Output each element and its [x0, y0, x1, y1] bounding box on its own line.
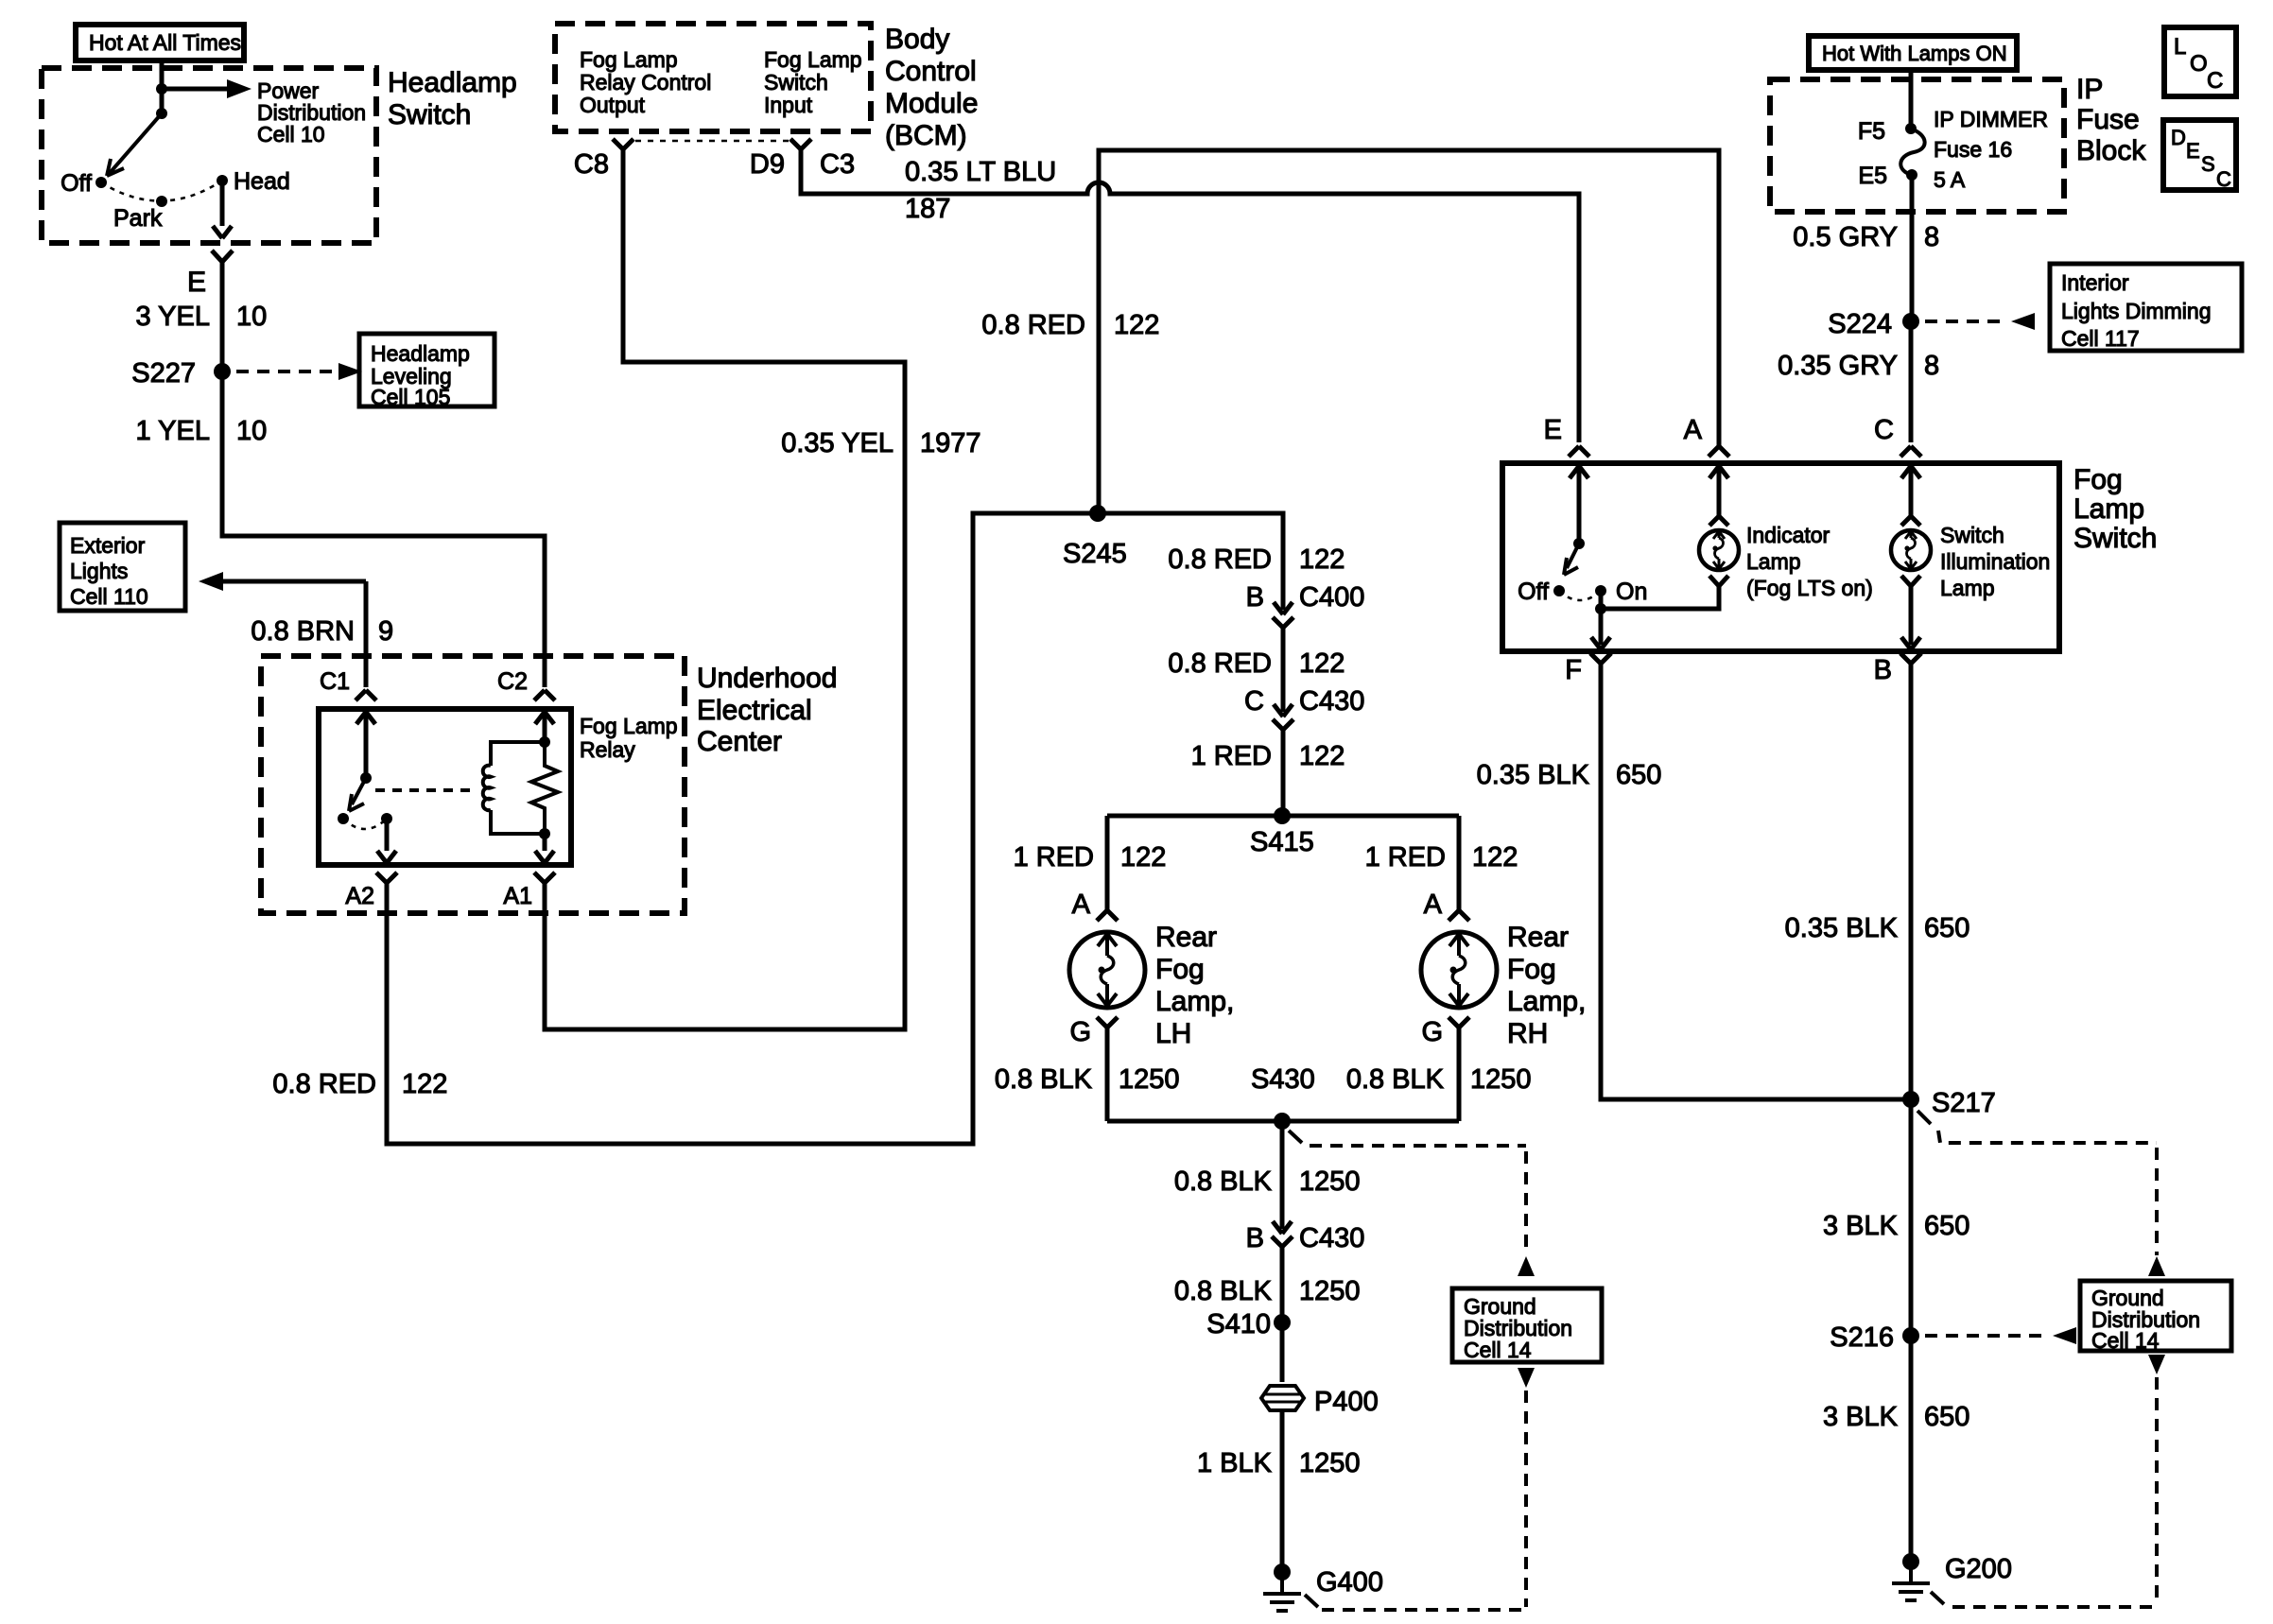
relay pin A2 internal arrow: [377, 819, 396, 863]
svg-text:B: B: [1874, 655, 1892, 685]
svg-text:1250: 1250: [1299, 1448, 1361, 1478]
svg-text:S227: S227: [131, 358, 196, 389]
svg-text:F: F: [1565, 655, 1582, 685]
svg-text:1250: 1250: [1470, 1064, 1532, 1095]
svg-text:8: 8: [1924, 351, 1939, 381]
svg-text:A: A: [1072, 890, 1091, 920]
svg-text:10: 10: [236, 302, 267, 332]
svg-text:S410: S410: [1206, 1309, 1271, 1339]
svg-text:F5: F5: [1858, 118, 1885, 145]
svg-text:E: E: [187, 267, 206, 298]
switch position dashed arc: [101, 181, 222, 201]
BCM dashed box: [555, 24, 871, 131]
svg-text:D9: D9: [750, 149, 785, 180]
svg-text:O: O: [2190, 51, 2208, 77]
svg-text:Output: Output: [580, 93, 646, 117]
svg-text:122: 122: [402, 1069, 447, 1099]
svg-text:122: 122: [1114, 310, 1159, 340]
wire P400 to G400: [1280, 1410, 1285, 1569]
svg-text:10: 10: [236, 416, 267, 446]
svg-text:G: G: [1421, 1017, 1443, 1047]
svg-text:S216: S216: [1830, 1322, 1894, 1353]
svg-text:Cell 14: Cell 14: [1464, 1338, 1532, 1362]
svg-text:650: 650: [1616, 760, 1661, 790]
relay switch pivot: [360, 772, 372, 784]
splice S227: [214, 363, 231, 380]
svg-text:Exterior: Exterior: [70, 533, 146, 558]
splice pass-through P400: [1261, 1386, 1304, 1410]
connector D9 / C3: [790, 139, 811, 149]
connector pin F (fog switch): [1590, 653, 1611, 664]
rear fog lamp LH: [1069, 932, 1145, 1008]
wire S430 down: [1280, 1121, 1285, 1229]
svg-text:C: C: [2216, 167, 2231, 191]
wire S415 rail: [1107, 814, 1459, 819]
svg-text:Fog Lamp: Fog Lamp: [580, 47, 678, 72]
svg-text:0.35 BLK: 0.35 BLK: [1785, 913, 1899, 943]
splice S415: [1274, 807, 1291, 824]
svg-text:0.8 BLK: 0.8 BLK: [1174, 1276, 1273, 1306]
wire S217 to S216: [1909, 1099, 1914, 1336]
svg-text:122: 122: [1299, 741, 1345, 771]
dashed leader S430 to Ground Distribution: [1289, 1131, 1302, 1143]
svg-text:Underhood: Underhood: [697, 663, 837, 694]
connector pin B (fog switch): [1900, 653, 1921, 664]
svg-text:5 A: 5 A: [1934, 167, 1966, 192]
svg-text:A1: A1: [503, 883, 532, 909]
svg-text:1250: 1250: [1299, 1276, 1361, 1306]
wire C8 (0.35 YEL 1977) to A1: [545, 149, 905, 1029]
wire S224 to fog switch C: [1909, 321, 1914, 442]
wire E to S227 to C2: [222, 262, 545, 687]
switch illumination lamp internal wiring: [1901, 466, 1920, 516]
svg-text:122: 122: [1472, 842, 1518, 872]
svg-text:Relay: Relay: [580, 737, 635, 762]
svg-text:0.35 YEL: 0.35 YEL: [781, 428, 894, 458]
node feed junction: [156, 83, 167, 95]
svg-text:Rear: Rear: [1155, 922, 1217, 953]
svg-text:Head: Head: [234, 168, 290, 195]
svg-text:Body: Body: [885, 24, 949, 55]
node E5: [1906, 169, 1917, 181]
wire C430 to S415: [1281, 730, 1286, 816]
svg-text:Fuse 16: Fuse 16: [1934, 137, 2012, 162]
svg-text:3 BLK: 3 BLK: [1823, 1402, 1899, 1432]
svg-text:C8: C8: [574, 149, 609, 180]
svg-text:0.8 BLK: 0.8 BLK: [1174, 1166, 1273, 1197]
svg-text:S217: S217: [1932, 1088, 1996, 1118]
svg-text:0.8 RED: 0.8 RED: [1168, 544, 1272, 575]
relay pin C1 internal arrow: [356, 712, 375, 778]
connector link dotted: [635, 140, 790, 143]
svg-text:S415: S415: [1250, 827, 1314, 857]
svg-text:A: A: [1424, 890, 1443, 920]
relay coil: [491, 742, 545, 766]
svg-text:3 BLK: 3 BLK: [1823, 1211, 1899, 1241]
svg-text:Center: Center: [697, 726, 782, 757]
svg-text:IP DIMMER: IP DIMMER: [1934, 107, 2048, 131]
fog switch dashed arc: [1559, 591, 1601, 600]
svg-text:(BCM): (BCM): [885, 120, 967, 151]
svg-text:Hot At All Times: Hot At All Times: [89, 30, 241, 55]
node Head: [217, 175, 228, 186]
svg-text:B: B: [1246, 582, 1264, 613]
svg-text:Block: Block: [2076, 135, 2146, 166]
dashed leader Ground Distribution to G200: [2148, 1355, 2165, 1374]
svg-text:0.8 BLK: 0.8 BLK: [1346, 1064, 1445, 1095]
svg-text:Lamp: Lamp: [2073, 493, 2144, 525]
svg-text:0.35 GRY: 0.35 GRY: [1778, 351, 1898, 381]
svg-text:0.35 BLK: 0.35 BLK: [1477, 760, 1590, 790]
svg-text:Cell 105: Cell 105: [371, 385, 450, 409]
indicator lamp upper connector: [1709, 466, 1728, 516]
indicator lamp: [1699, 530, 1739, 570]
wire S415 to RH lamp: [1457, 816, 1462, 910]
wire Head to pin E: [220, 181, 225, 226]
node On (fog switch): [1595, 585, 1606, 596]
svg-text:A: A: [1684, 415, 1703, 445]
svg-text:On: On: [1616, 579, 1647, 605]
svg-text:Module: Module: [885, 88, 978, 119]
wire B to S217: [1909, 664, 1914, 1099]
svg-text:122: 122: [1299, 648, 1345, 679]
svg-text:Fuse: Fuse: [2076, 104, 2140, 135]
svg-text:C1: C1: [320, 668, 350, 695]
wire On to F junction: [1599, 591, 1604, 609]
wire A2 to S245: [387, 513, 1098, 1144]
relay contact right (to A2): [381, 813, 392, 824]
svg-text:Park: Park: [113, 205, 163, 232]
svg-text:IP: IP: [2076, 74, 2103, 105]
connector A2: [376, 872, 397, 883]
wire S245 to C400: [1098, 513, 1283, 610]
svg-text:Fog: Fog: [1507, 954, 1556, 985]
fog switch pivot: [1573, 538, 1585, 549]
svg-text:Lamp,: Lamp,: [1155, 986, 1234, 1017]
svg-text:Cell 117: Cell 117: [2061, 326, 2140, 351]
relay contact left: [338, 813, 349, 824]
svg-text:C: C: [2207, 68, 2223, 94]
Headlamp Leveling Cell 105 box: [359, 334, 495, 406]
svg-text:C430: C430: [1299, 686, 1364, 717]
node Off: [95, 177, 107, 188]
svg-text:0.8 RED: 0.8 RED: [272, 1069, 376, 1099]
svg-text:A2: A2: [345, 883, 374, 909]
svg-text:1 RED: 1 RED: [1365, 842, 1446, 872]
relay resistor: [531, 742, 558, 834]
svg-text:LH: LH: [1155, 1018, 1191, 1049]
svg-text:0.8 RED: 0.8 RED: [1168, 648, 1272, 679]
connector C430 pin C: [1274, 704, 1293, 717]
svg-text:Lamp: Lamp: [1940, 576, 1995, 600]
DESC legend box: [2163, 120, 2236, 190]
svg-text:G200: G200: [1945, 1554, 2012, 1584]
fuse IP DIMMER Fuse 16: [1900, 129, 1924, 175]
Exterior Lights Cell 110 box: [60, 523, 185, 611]
Interior Lights Dimming Cell 117 box: [2050, 264, 2242, 351]
svg-text:E: E: [1544, 415, 1562, 445]
dashed leader Ground Distribution to G400: [1518, 1368, 1535, 1388]
svg-text:E: E: [2186, 139, 2200, 163]
relay actuation dashed link: [375, 788, 477, 792]
splice S224: [1902, 313, 1919, 330]
Underhood Electrical Center dashed box: [261, 656, 685, 913]
svg-text:C430: C430: [1299, 1223, 1364, 1253]
svg-text:Control: Control: [885, 56, 977, 87]
svg-text:D: D: [2171, 126, 2186, 149]
svg-text:E5: E5: [1858, 163, 1887, 189]
svg-text:8: 8: [1924, 222, 1939, 252]
node coil top: [539, 736, 550, 748]
svg-text:Hot With Lamps ON: Hot With Lamps ON: [1822, 42, 2007, 65]
wire E5 to S224: [1910, 175, 1915, 321]
svg-text:Headlamp: Headlamp: [371, 341, 470, 366]
wire feed from Hot At All Times: [160, 60, 165, 115]
svg-text:Off: Off: [1518, 579, 1549, 605]
svg-text:650: 650: [1924, 913, 1969, 943]
svg-text:C400: C400: [1299, 582, 1364, 613]
splice S430 rail: [1107, 1119, 1459, 1124]
indicator lamp lower connector: [1709, 576, 1728, 586]
dashed leader S224 to Interior Lights Dimming: [1925, 320, 2008, 323]
dashed leader S216: [1925, 1334, 2050, 1338]
svg-text:0.5 GRY: 0.5 GRY: [1793, 222, 1898, 252]
svg-text:Fog: Fog: [1155, 954, 1205, 985]
wire C400 to C430: [1281, 628, 1286, 712]
svg-text:C: C: [1874, 415, 1894, 445]
svg-text:G: G: [1069, 1017, 1091, 1047]
connector C430 pin B (lower): [1273, 1221, 1292, 1234]
switch illumination lamp: [1891, 530, 1931, 570]
svg-text:Illumination: Illumination: [1940, 549, 2050, 574]
svg-text:1 YEL: 1 YEL: [136, 416, 210, 446]
svg-text:Switch: Switch: [1940, 523, 2004, 547]
relay pin C2 internal arrow: [535, 712, 554, 742]
svg-text:Input: Input: [764, 93, 813, 117]
splice S217: [1902, 1091, 1919, 1108]
svg-text:Fog Lamp: Fog Lamp: [764, 47, 862, 72]
wire F to S217: [1601, 664, 1911, 1099]
svg-text:Fog: Fog: [2073, 464, 2123, 495]
svg-text:Lights Dimming: Lights Dimming: [2061, 299, 2212, 323]
svg-text:Lamp: Lamp: [1746, 549, 1801, 574]
svg-text:RH: RH: [1507, 1018, 1548, 1049]
wire A(fog switch) to S245 (0.8 RED 122): [1099, 150, 1719, 513]
dashed leader S217 to Ground Distribution: [1917, 1111, 1931, 1124]
svg-text:(Fog LTS on): (Fog LTS on): [1746, 576, 1873, 600]
IP Fuse Block dashed box: [1770, 79, 2064, 212]
svg-text:Headlamp: Headlamp: [388, 67, 517, 98]
Hot At All Times banner box: [76, 25, 244, 60]
connector E: [212, 251, 233, 262]
wire C1 to Exterior Lights: [223, 579, 366, 584]
node F5: [1905, 123, 1917, 134]
wire S415 to LH lamp: [1105, 816, 1110, 910]
Hot With Lamps ON banner box: [1809, 36, 2017, 70]
wire LH lamp to S430: [1105, 1028, 1110, 1121]
svg-text:C2: C2: [497, 668, 528, 695]
svg-text:Switch: Switch: [764, 70, 828, 95]
svg-text:C3: C3: [820, 149, 855, 180]
svg-text:Electrical: Electrical: [697, 695, 812, 726]
svg-text:Interior: Interior: [2061, 270, 2129, 295]
svg-text:Switch: Switch: [2073, 523, 2157, 554]
splice S216: [1902, 1327, 1919, 1344]
wire RH lamp to S430: [1457, 1028, 1462, 1121]
svg-text:Indicator: Indicator: [1746, 523, 1831, 547]
svg-text:1 RED: 1 RED: [1014, 842, 1094, 872]
wire junction to indicator lamp: [1601, 586, 1719, 609]
svg-text:650: 650: [1924, 1402, 1969, 1432]
svg-text:0.8 BLK: 0.8 BLK: [995, 1064, 1093, 1095]
ground G200: [1902, 1553, 1919, 1570]
wire S216 to G200: [1909, 1336, 1914, 1560]
node coil bottom: [539, 828, 550, 839]
svg-text:187: 187: [905, 194, 950, 224]
svg-text:1 RED: 1 RED: [1191, 741, 1272, 771]
svg-text:L: L: [2174, 34, 2186, 60]
svg-text:C: C: [1244, 686, 1264, 717]
LOC legend box: [2164, 27, 2236, 96]
svg-text:S: S: [2201, 152, 2215, 176]
splice S410: [1274, 1314, 1291, 1331]
svg-text:650: 650: [1924, 1211, 1969, 1241]
svg-text:Fog Lamp: Fog Lamp: [580, 714, 678, 738]
svg-text:Cell 10: Cell 10: [257, 122, 325, 147]
wire C3 (0.35 LT BLU) to fog switch E with hop: [801, 149, 1579, 442]
fog switch pin F internal arrow: [1591, 609, 1610, 649]
Fog Lamp Switch box: [1502, 463, 2059, 651]
svg-text:Rear: Rear: [1507, 922, 1569, 953]
ground G400: [1274, 1564, 1291, 1581]
wire feed to fuse: [1909, 70, 1914, 125]
svg-text:Relay Control: Relay Control: [580, 70, 711, 95]
Fog Lamp Relay box: [319, 709, 571, 865]
fog switch pin E internal arrow: [1570, 466, 1588, 544]
svg-text:0.35 LT BLU: 0.35 LT BLU: [905, 157, 1056, 187]
splice S245: [1089, 505, 1106, 522]
Ground Distribution Cell 14 box (right): [2080, 1281, 2231, 1351]
svg-text:Cell 14: Cell 14: [2091, 1328, 2160, 1353]
connector C8: [613, 139, 633, 149]
node Off (fog switch): [1553, 585, 1565, 596]
rear fog lamp RH: [1421, 932, 1497, 1008]
relay contact dashed arc: [343, 819, 387, 829]
svg-text:Switch: Switch: [388, 99, 471, 130]
connector C400 pin B: [1274, 602, 1293, 614]
svg-text:B: B: [1246, 1223, 1264, 1253]
Headlamp Switch dashed box: [42, 68, 376, 243]
svg-text:Lamp,: Lamp,: [1507, 986, 1586, 1017]
svg-text:122: 122: [1120, 842, 1166, 872]
svg-text:Off: Off: [61, 170, 92, 197]
svg-text:S224: S224: [1828, 309, 1892, 339]
svg-text:9: 9: [378, 616, 393, 647]
node Park: [156, 196, 167, 207]
svg-text:S245: S245: [1063, 539, 1127, 569]
svg-text:1 BLK: 1 BLK: [1197, 1448, 1273, 1478]
svg-text:Lights: Lights: [70, 559, 128, 583]
dashed leader S227 to Headlamp Leveling: [236, 370, 337, 373]
relay pin A1 internal arrow: [535, 834, 554, 863]
wire C430 to S410: [1280, 1247, 1285, 1382]
svg-text:1977: 1977: [920, 428, 981, 458]
connector A1: [534, 872, 555, 883]
svg-text:122: 122: [1299, 544, 1345, 575]
svg-text:S430: S430: [1251, 1064, 1315, 1095]
svg-text:3 YEL: 3 YEL: [136, 302, 210, 332]
headlamp switch wiper arm: [110, 113, 162, 173]
svg-text:0.8 RED: 0.8 RED: [981, 310, 1085, 340]
svg-text:G400: G400: [1316, 1567, 1383, 1598]
svg-text:Cell 110: Cell 110: [70, 584, 148, 609]
svg-text:1250: 1250: [1119, 1064, 1180, 1095]
Ground Distribution Cell 14 box (left): [1452, 1288, 1602, 1362]
wire to Power Distribution: [162, 87, 227, 92]
svg-text:0.8 BRN: 0.8 BRN: [251, 616, 355, 647]
svg-text:P400: P400: [1314, 1387, 1379, 1417]
svg-text:1250: 1250: [1299, 1166, 1361, 1197]
